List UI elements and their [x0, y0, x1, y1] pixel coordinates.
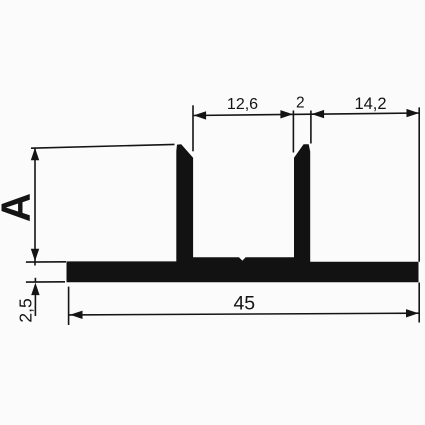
- arrowhead left tip of 12,6: [194, 111, 207, 119]
- extension line at right edge of left fin: [192, 105, 194, 151]
- extension line at right end of base (upper part): [418, 107, 420, 261]
- svg-text:A: A: [0, 193, 39, 222]
- svg-text:12,6: 12,6: [227, 96, 258, 113]
- extension line at right edge of right fin: [310, 111, 312, 144]
- arrowhead left tip of 45: [70, 311, 83, 319]
- profile cross-section (base bar with two fins): [67, 144, 419, 282]
- top dimension line: [193, 113, 419, 116]
- arrowhead right tip of 14,2: [407, 109, 420, 117]
- extension line at left end of base: [68, 287, 70, 325]
- horizontal reference line from A dimension to fin top: [31, 144, 175, 148]
- svg-text:2,5: 2,5: [16, 298, 36, 322]
- stub of 2,5 arrow shaft above lower tick: [34, 278, 36, 283]
- arrowhead up tip of 2,5: [31, 283, 39, 296]
- extension line at left edge of right fin: [292, 111, 294, 153]
- svg-text:2: 2: [296, 95, 305, 112]
- arrowhead right tip of 45: [406, 309, 419, 317]
- svg-text:14,2: 14,2: [354, 95, 386, 113]
- arrowhead up tip of A: [31, 148, 39, 161]
- extension line at right end of base (lower part): [418, 283, 420, 323]
- stub of A arrow shaft below upper tick: [34, 262, 36, 266]
- arrowhead left tip of 14,2: [312, 110, 325, 118]
- arrowhead right tip of 12,6: [280, 110, 293, 118]
- vertical dimension line A: [34, 148, 36, 262]
- extension tick at top of base: [26, 261, 66, 263]
- bottom dimension line 45: [69, 313, 419, 315]
- svg-text:45: 45: [233, 292, 255, 314]
- shaft of 2,5 dimension below arrow: [34, 288, 36, 316]
- arrowhead down tip of A: [31, 249, 39, 262]
- extension tick at bottom of base: [26, 281, 65, 283]
